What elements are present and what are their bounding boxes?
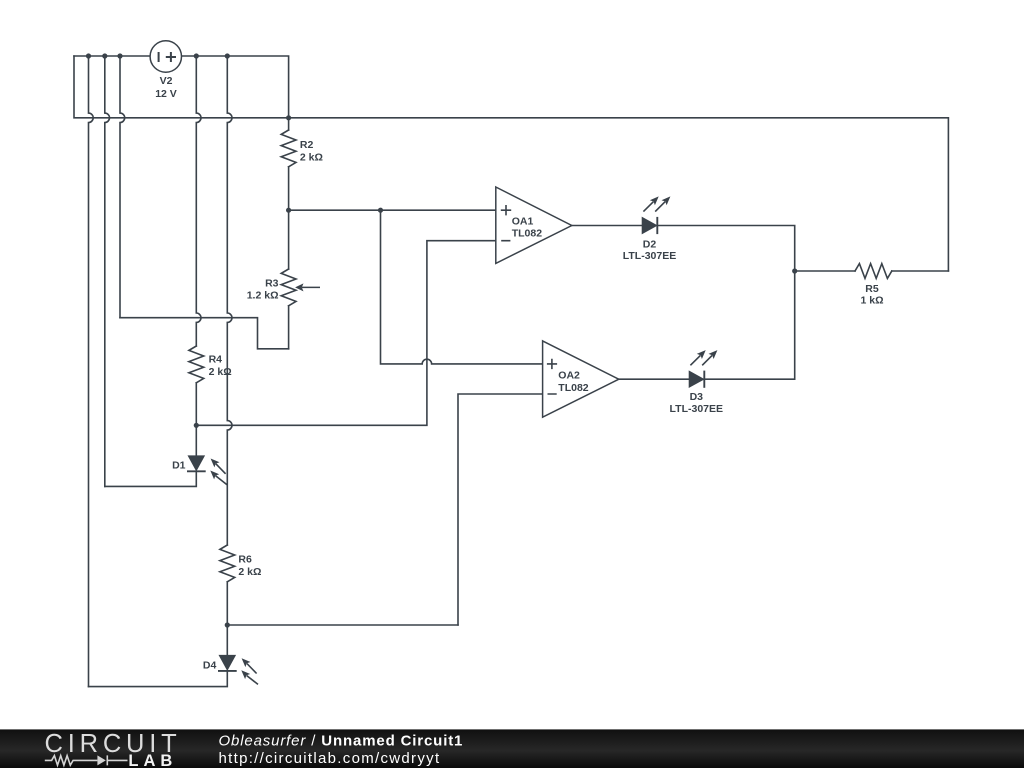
wire vertical D4-return rail x=88.5 with hop over bus	[89, 56, 94, 687]
label R5 value	[860, 283, 883, 307]
resistor R6	[220, 545, 235, 582]
wire node C feedback: from OA1+ node down to OA2 + input, hop over riser	[381, 210, 543, 364]
wire OA2 - input from R6 node riser	[458, 394, 543, 625]
svg-text:2 kΩ: 2 kΩ	[209, 366, 232, 378]
LED D2	[642, 196, 670, 234]
label R6 value	[238, 553, 261, 578]
svg-text:1 kΩ: 1 kΩ	[860, 295, 883, 307]
node dot rail x=120	[117, 53, 122, 58]
node dot rail x=88.5	[86, 53, 91, 58]
wire D4 cathode return to x=88.5 rail	[89, 671, 228, 686]
svg-text:http://circuitlab.com/cwdryyt: http://circuitlab.com/cwdryyt	[219, 750, 441, 767]
label R2 value	[300, 139, 323, 163]
wire OA2 output to D3	[619, 378, 690, 380]
svg-text:OA1: OA1	[512, 216, 534, 228]
svg-text:LTL-307EE: LTL-307EE	[670, 403, 723, 415]
potentiometer R3 wiper arrow	[295, 283, 303, 291]
node dot rail x=196.3	[194, 53, 199, 58]
label D2 designator	[623, 239, 676, 262]
svg-text:LAB: LAB	[128, 752, 177, 768]
wire top rail right from V2 to R2 column corner	[182, 56, 289, 118]
node C dot feedback tap	[378, 208, 383, 213]
wire vertical R4 rail x=196.3 with hops at bus and y=318	[196, 56, 201, 346]
svg-text:D4: D4	[203, 659, 217, 671]
op-amp U2 OA2	[543, 341, 619, 417]
resistor R5	[855, 264, 892, 279]
node junction dots	[86, 53, 797, 627]
svg-text:OA2: OA2	[558, 370, 580, 382]
node B dot R4 bottom	[194, 423, 199, 428]
wire OA1 output to D2	[572, 225, 643, 227]
LED D3	[689, 350, 717, 388]
svg-text:R2: R2	[300, 139, 314, 151]
svg-text:Obleasurfer / Unnamed Circuit1: Obleasurfer / Unnamed Circuit1	[219, 733, 464, 750]
footer bar	[0, 729, 1024, 768]
wire node A down to R3 top	[288, 210, 290, 269]
wire node A to OA1 + input	[289, 209, 496, 211]
node dot bus R2 top	[286, 115, 291, 120]
resistor R4	[189, 346, 204, 383]
wire R5 right lead	[892, 270, 949, 272]
label D3 designator	[670, 391, 723, 415]
label OA2 designator	[558, 370, 589, 394]
wire top rail left from corner to V2	[74, 55, 150, 57]
op-amp U1 OA1	[496, 187, 572, 263]
node D dot R6 bottom	[225, 622, 230, 627]
svg-text:12 V: 12 V	[155, 88, 177, 100]
potentiometer R3	[281, 269, 296, 306]
node A dot R2 bottom	[286, 208, 291, 213]
wire D4 anode stub	[226, 625, 228, 656]
wire R2 top stub	[288, 118, 290, 130]
LED D1	[187, 456, 227, 485]
wire vertical R6 rail x=227.3 with hops at bus, y=318, y=424.5	[227, 56, 232, 545]
wire R3 bottom stub	[288, 306, 290, 349]
node dot rail x=104.8	[102, 53, 107, 58]
svg-text:D2: D2	[643, 239, 657, 251]
wire R4 bottom to node B	[195, 383, 197, 426]
wire node D to OA2 riser	[227, 624, 458, 626]
CircuitLab logo wordmark	[45, 730, 182, 758]
label OA1 designator	[512, 216, 543, 240]
svg-text:V2: V2	[160, 75, 173, 87]
label R3 value	[247, 277, 279, 301]
wire pot-bottom link y=318 with jog	[120, 318, 289, 349]
wire D1 cathode return to x=104.8 rail	[105, 472, 197, 487]
wire D1 anode stub	[195, 425, 197, 456]
wire node B to OA1 - input riser	[196, 241, 496, 426]
voltage source V2	[150, 41, 181, 72]
node dot output column	[792, 268, 797, 273]
svg-text:D1: D1	[172, 459, 186, 471]
wire R2 bottom to node A	[288, 167, 290, 210]
svg-text:1.2 kΩ: 1.2 kΩ	[247, 290, 279, 302]
svg-text:R3: R3	[265, 277, 279, 289]
wire D2 cathode to output column	[657, 226, 794, 272]
wire +12V bus: left drop and long horizontal to right edge, down to R5	[74, 56, 948, 271]
wire vertical D1-return rail x=104.8 with hop over bus	[105, 56, 110, 486]
LED D4	[218, 656, 258, 685]
svg-text:D3: D3	[690, 391, 704, 403]
svg-text:LTL-307EE: LTL-307EE	[623, 250, 676, 262]
label V2 designator and value	[155, 75, 177, 100]
node dot rail x=227.3	[225, 53, 230, 58]
svg-text:TL082: TL082	[558, 382, 589, 394]
svg-text:2 kΩ: 2 kΩ	[238, 566, 261, 578]
svg-text:R5: R5	[865, 283, 879, 295]
resistor R2	[281, 130, 296, 167]
CircuitLab logo schematic squiggle	[45, 755, 128, 765]
svg-text:2 kΩ: 2 kΩ	[300, 151, 323, 163]
wire output column down to D3 level	[704, 271, 794, 379]
svg-text:TL082: TL082	[512, 228, 543, 240]
wire R6 bottom to node D	[226, 582, 228, 625]
label R4 value	[209, 353, 232, 378]
wire R5 left lead	[795, 270, 855, 272]
svg-text:R4: R4	[209, 353, 223, 365]
wire vertical pot-bottom rail x=120 with hop over bus	[120, 56, 125, 318]
svg-text:R6: R6	[238, 553, 252, 565]
